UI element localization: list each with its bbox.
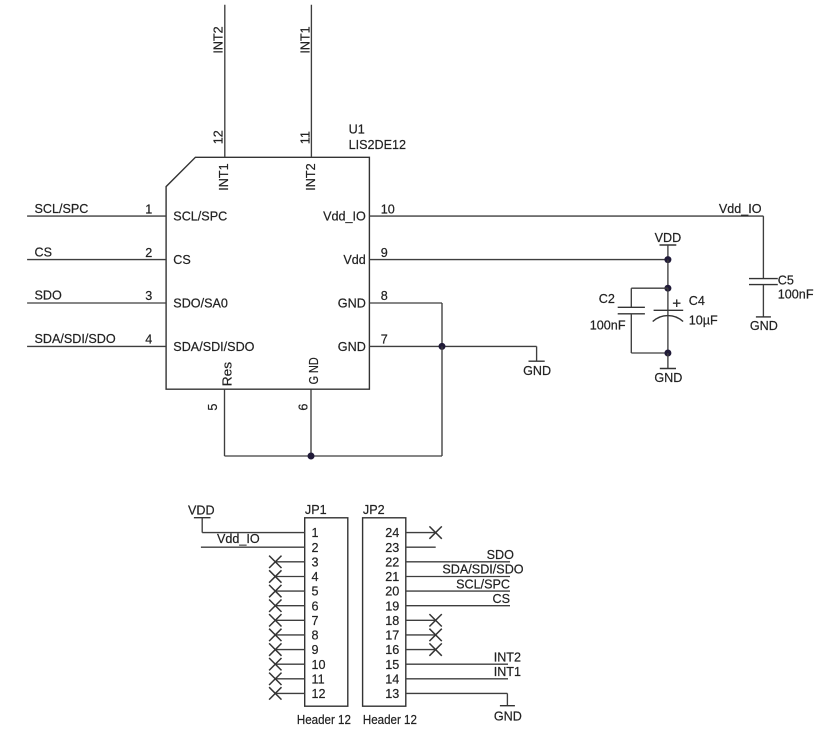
svg-text:GND: GND xyxy=(494,709,522,723)
svg-text:18: 18 xyxy=(385,614,399,628)
node junction pin 6 ground bus xyxy=(308,453,315,460)
svg-text:INT1: INT1 xyxy=(217,163,231,190)
connector JP2 outline xyxy=(363,518,406,706)
svg-text:SDO/SA0: SDO/SA0 xyxy=(173,297,228,311)
svg-text:16: 16 xyxy=(385,643,399,657)
svg-text:JP2: JP2 xyxy=(363,503,385,517)
svg-text:3: 3 xyxy=(312,555,319,569)
wire JP1 pin 3 no-connect stub xyxy=(275,561,304,563)
wire JP2 pin 13 to ground xyxy=(406,692,508,694)
svg-text:2: 2 xyxy=(145,246,152,260)
svg-text:10µF: 10µF xyxy=(689,313,718,327)
node junction C2 branch xyxy=(664,285,671,292)
svg-text:C2: C2 xyxy=(599,292,615,306)
svg-text:Res: Res xyxy=(220,362,234,386)
svg-text:VDD: VDD xyxy=(655,231,682,245)
capacitor C4 plus sign xyxy=(673,302,681,304)
no-connect X at JP1 pin 11 xyxy=(269,673,281,685)
capacitor C2 plates xyxy=(618,306,645,308)
wire JP1 pin 6 no-connect stub xyxy=(275,605,304,607)
svg-text:24: 24 xyxy=(385,526,399,540)
svg-text:SCL/SPC: SCL/SPC xyxy=(173,210,227,224)
svg-text:Header 12: Header 12 xyxy=(297,713,351,727)
svg-text:SDA/SDI/SDO: SDA/SDI/SDO xyxy=(35,332,116,346)
wire JP2 pin 24 no-connect stub xyxy=(406,532,436,534)
svg-text:3: 3 xyxy=(145,289,152,303)
wire JP1 pin 10 no-connect stub xyxy=(275,663,304,665)
svg-text:10: 10 xyxy=(312,658,326,672)
wire JP1 pin 5 no-connect stub xyxy=(275,590,304,592)
wire JP1 pin 12 no-connect stub xyxy=(275,692,304,694)
svg-text:9: 9 xyxy=(312,643,319,657)
wire bottom ground bus xyxy=(225,455,443,457)
wire Vdd_IO pin 10 rail xyxy=(369,215,763,217)
wire Vdd pin 9 to VDD node xyxy=(369,259,668,261)
svg-text:23: 23 xyxy=(385,541,399,555)
wire C2 bottom branch xyxy=(630,314,632,353)
wire ground bus riser xyxy=(441,346,443,456)
wire net SDA/SDI/SDO to pin 4 xyxy=(27,345,166,347)
no-connect X at JP1 pin 12 xyxy=(269,687,281,699)
no-connect X at JP1 pin 6 xyxy=(269,600,281,612)
svg-text:1: 1 xyxy=(312,526,319,540)
svg-text:CS: CS xyxy=(35,245,53,259)
svg-text:8: 8 xyxy=(381,289,388,303)
svg-text:4: 4 xyxy=(312,570,319,584)
svg-text:12: 12 xyxy=(211,130,225,144)
wire JP2 pin 23 stub xyxy=(406,546,436,548)
svg-text:6: 6 xyxy=(296,404,310,411)
capacitor C4 positive plate xyxy=(654,309,684,311)
wire Vdd_IO down to C5 xyxy=(762,216,764,279)
wire pin 5 Res down xyxy=(224,389,226,456)
svg-text:SCL/SPC: SCL/SPC xyxy=(456,577,510,591)
no-connect X at JP1 pin 8 xyxy=(269,629,281,641)
capacitor C5 plates xyxy=(749,278,778,280)
wire JP2 net CS xyxy=(406,605,510,607)
no-connect X at JP2 pin 17 xyxy=(429,629,441,641)
svg-text:INT1: INT1 xyxy=(298,26,312,53)
svg-text:10: 10 xyxy=(381,202,395,216)
wire VDD to JP1 pin 1 xyxy=(201,518,203,533)
svg-text:GND: GND xyxy=(750,319,778,333)
wire JP2 net SCL/SPC xyxy=(406,590,510,592)
svg-text:11: 11 xyxy=(312,672,325,686)
no-connect X at JP2 pin 18 xyxy=(429,614,441,626)
wire JP1 pin 8 no-connect stub xyxy=(275,634,304,636)
svg-text:Vdd_IO: Vdd_IO xyxy=(719,202,762,216)
wire C4 bottom lead xyxy=(667,316,669,353)
node junction bottom of C2/C4 xyxy=(664,350,671,357)
svg-text:5: 5 xyxy=(312,585,319,599)
wire VDD node down xyxy=(667,260,669,289)
svg-text:SDO: SDO xyxy=(35,289,62,303)
no-connect X at JP1 pin 9 xyxy=(269,643,281,655)
wire net SDO to pin 3 xyxy=(27,302,166,304)
IC U1 LIS2DE12 body outline xyxy=(166,157,369,389)
wire pin 8 GND horizontal xyxy=(369,302,442,304)
wire JP2 net SDO xyxy=(406,561,510,563)
wire JP1 pin 7 no-connect stub xyxy=(275,619,304,621)
svg-text:21: 21 xyxy=(385,570,399,584)
no-connect X at JP2 pin 24 xyxy=(429,526,441,538)
svg-text:7: 7 xyxy=(381,333,388,347)
svg-text:4: 4 xyxy=(145,333,152,347)
svg-text:2: 2 xyxy=(312,541,319,555)
no-connect X at JP1 pin 7 xyxy=(269,614,281,626)
svg-text:SCL/SPC: SCL/SPC xyxy=(35,202,89,216)
svg-text:17: 17 xyxy=(385,629,399,643)
wire JP2 net INT2 xyxy=(406,663,508,665)
svg-text:INT2: INT2 xyxy=(211,26,225,53)
svg-text:Vdd_IO: Vdd_IO xyxy=(323,210,366,224)
wire JP2 pin 16 no-connect stub xyxy=(406,649,436,651)
svg-text:G ND: G ND xyxy=(307,357,321,384)
no-connect X at JP1 pin 3 xyxy=(269,556,281,568)
svg-text:20: 20 xyxy=(385,585,399,599)
svg-text:14: 14 xyxy=(385,672,399,686)
wire pin 8 GND vertical drop xyxy=(441,303,443,346)
svg-text:LIS2DE12: LIS2DE12 xyxy=(349,138,406,152)
svg-text:13: 13 xyxy=(385,687,399,701)
svg-text:SDA/SDI/SDO: SDA/SDI/SDO xyxy=(173,340,254,354)
wire net SCL/SPC to pin 1 xyxy=(27,215,166,217)
no-connect X at JP1 pin 5 xyxy=(269,585,281,597)
ground symbol below C5 xyxy=(762,285,764,317)
svg-text:9: 9 xyxy=(381,246,388,260)
capacitor C4 curved plate xyxy=(653,316,683,322)
svg-text:5: 5 xyxy=(206,404,220,411)
svg-text:7: 7 xyxy=(312,614,319,628)
wire JP2 pin 18 no-connect stub xyxy=(406,619,436,621)
wire JP1 pin 11 no-connect stub xyxy=(275,678,304,680)
no-connect X at JP1 pin 4 xyxy=(269,570,281,582)
no-connect X at JP2 pin 16 xyxy=(429,643,441,655)
svg-text:SDO: SDO xyxy=(487,548,514,562)
svg-text:100nF: 100nF xyxy=(590,319,626,333)
wire JP2 pin 17 no-connect stub xyxy=(406,634,436,636)
wire JP2 net SDA/SDI/SDO xyxy=(406,576,510,578)
svg-text:8: 8 xyxy=(312,629,319,643)
wire JP1 pin 4 no-connect stub xyxy=(275,576,304,578)
wire C4 top lead xyxy=(667,288,669,315)
svg-text:CS: CS xyxy=(493,592,511,606)
svg-text:U1: U1 xyxy=(349,123,365,137)
node junction VDD / Vdd pin 9 xyxy=(664,256,671,263)
svg-text:Vdd: Vdd xyxy=(343,253,365,267)
svg-text:6: 6 xyxy=(312,599,319,613)
svg-text:Header 12: Header 12 xyxy=(363,713,417,727)
svg-text:GND: GND xyxy=(338,340,366,354)
connector JP1 outline xyxy=(305,518,348,706)
svg-text:100nF: 100nF xyxy=(778,287,814,301)
svg-text:CS: CS xyxy=(173,253,191,267)
ground symbol at JP2 pin 13 xyxy=(506,693,508,705)
svg-text:15: 15 xyxy=(385,658,399,672)
svg-text:22: 22 xyxy=(385,555,399,569)
wire INT2 to pin 12 xyxy=(224,5,226,158)
wire C2 top branch xyxy=(631,287,668,289)
svg-text:GND: GND xyxy=(523,364,551,378)
svg-text:11: 11 xyxy=(298,131,312,144)
wire JP1 pin 9 no-connect stub xyxy=(275,649,304,651)
ground symbol below C4 xyxy=(667,353,669,369)
wire net CS to pin 2 xyxy=(27,259,166,261)
wire pin 6 GND down xyxy=(310,389,312,456)
svg-text:INT1: INT1 xyxy=(494,665,521,679)
no-connect X at JP1 pin 10 xyxy=(269,658,281,670)
svg-text:19: 19 xyxy=(385,599,399,613)
svg-text:SDA/SDI/SDO: SDA/SDI/SDO xyxy=(442,563,523,577)
svg-text:JP1: JP1 xyxy=(305,503,327,517)
svg-text:VDD: VDD xyxy=(188,504,215,518)
wire INT1 to pin 11 xyxy=(310,5,312,158)
svg-text:C5: C5 xyxy=(778,273,794,287)
wire Vdd_IO to JP1 pin 2 xyxy=(201,546,305,548)
svg-text:C4: C4 xyxy=(689,294,705,308)
svg-text:Vdd_IO: Vdd_IO xyxy=(217,532,260,546)
wire JP2 net INT1 xyxy=(406,678,508,680)
svg-text:1: 1 xyxy=(145,202,152,216)
node junction pin7/pin8 GND xyxy=(439,343,446,350)
ground symbol at pin 7 net xyxy=(536,346,538,361)
svg-text:GND: GND xyxy=(654,371,682,385)
wire pin 7 GND horizontal xyxy=(369,345,536,347)
svg-text:INT2: INT2 xyxy=(304,163,318,190)
svg-text:INT2: INT2 xyxy=(494,650,521,664)
svg-text:12: 12 xyxy=(312,687,326,701)
svg-text:GND: GND xyxy=(338,297,366,311)
